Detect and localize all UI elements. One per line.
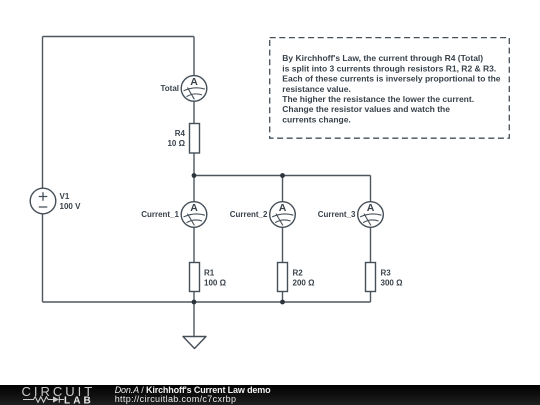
wire: branch 2 ammeter to R2: [282, 227, 284, 263]
svg-text:Current_1: Current_1: [141, 210, 179, 219]
ground: [183, 337, 206, 349]
svg-text:Current_3: Current_3: [318, 210, 356, 219]
svg-text:200 Ω: 200 Ω: [293, 279, 316, 288]
svg-text:10 Ω: 10 Ω: [167, 139, 185, 148]
node junction dot (top rail / branch 2): [280, 173, 285, 178]
junction dot (bottom rail / branch 2): [280, 300, 285, 305]
annotation note box: [270, 38, 510, 139]
svg-text:A: A: [279, 202, 287, 214]
svg-text:100 Ω: 100 Ω: [204, 279, 227, 288]
svg-text:100 V: 100 V: [60, 202, 82, 211]
svg-text:R4: R4: [175, 129, 186, 138]
ammeter Current_2: [230, 202, 296, 228]
svg-text:300 Ω: 300 Ω: [381, 279, 404, 288]
wire: left vertical lower (V1 minus down to bottom rail): [42, 214, 44, 303]
wire: branch 2 R2 to bottom rail: [282, 292, 284, 303]
resistor R1: [190, 263, 227, 292]
ammeter Current_1: [141, 202, 207, 228]
ammeter Total: [160, 76, 206, 102]
wire: ammeter Total to R4: [193, 101, 195, 124]
svg-text:R2: R2: [293, 269, 304, 278]
resistor R2: [278, 263, 316, 292]
wire: branch 3 R3 to bottom rail: [370, 292, 372, 303]
ammeter Current_3: [318, 202, 384, 228]
wire: ground stem: [193, 302, 195, 337]
resistor R4: [167, 124, 199, 154]
svg-text:Total: Total: [160, 84, 179, 93]
wire: branch 3 ammeter to R3: [370, 227, 372, 263]
wire: top horizontal from V1 to R4 branch: [43, 36, 195, 38]
node A junction dot (top rail / branch 1): [192, 173, 197, 178]
svg-text:is split into 3 currents throu: is split into 3 currents through resisto…: [282, 63, 496, 73]
wire: top distribution rail node A to branch 3: [194, 175, 371, 177]
svg-text:Change the resistor values and: Change the resistor values and watch the: [282, 104, 450, 114]
footer bar: [0, 385, 540, 405]
wire: branch 1 ammeter to R1: [193, 227, 195, 263]
svg-text:http://circuitlab.com/c7cxrbp: http://circuitlab.com/c7cxrbp: [115, 394, 237, 404]
wire: left vertical upper (top rail down to V1 plus): [42, 37, 44, 189]
wire: branch 1 node A to ammeter Current_1: [193, 176, 195, 203]
svg-text:The higher the resistance the: The higher the resistance the lower the …: [282, 94, 474, 104]
wire: bottom horizontal rail: [43, 301, 371, 303]
svg-text:By Kirchhoff's Law, the curren: By Kirchhoff's Law, the current through …: [282, 53, 483, 63]
svg-text:A: A: [190, 76, 198, 88]
CircuitLab logo: [22, 384, 96, 405]
svg-text:R1: R1: [204, 269, 215, 278]
svg-text:LAB: LAB: [64, 396, 94, 405]
wire: branch 2 top rail to ammeter Current_2: [282, 176, 284, 203]
svg-text:V1: V1: [60, 192, 70, 201]
voltage source V1: [30, 188, 81, 214]
wire: branch 1 R1 to bottom rail: [193, 292, 195, 303]
svg-text:A: A: [367, 202, 375, 214]
resistor R3: [366, 263, 404, 292]
svg-text:currents change.: currents change.: [282, 114, 351, 124]
svg-text:Current_2: Current_2: [230, 210, 268, 219]
svg-text:Each of these currents is inve: Each of these currents is inversely prop…: [282, 74, 500, 84]
svg-text:A: A: [190, 202, 198, 214]
wire: branch 3 top rail to ammeter Current_3: [370, 176, 372, 203]
junction dot (bottom rail / ground): [192, 300, 197, 305]
wire: right vertical from top rail to ammeter Total: [193, 37, 195, 77]
svg-text:resistance value.: resistance value.: [282, 84, 351, 94]
wire: R4 to node A: [193, 153, 195, 176]
svg-text:R3: R3: [381, 269, 392, 278]
